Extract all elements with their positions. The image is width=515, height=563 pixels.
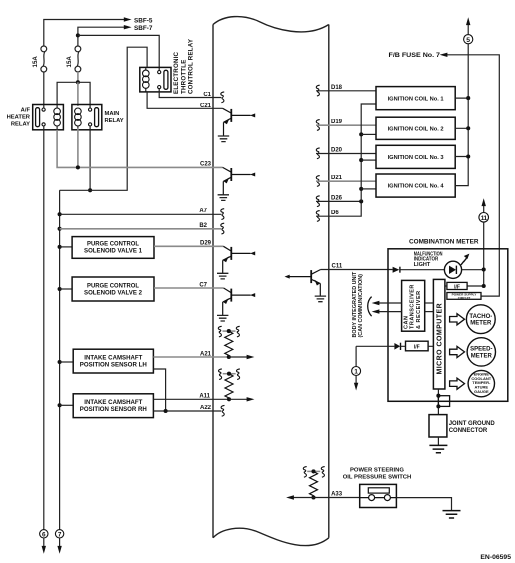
svg-text:METER: METER xyxy=(470,321,492,327)
pin circle top xyxy=(42,108,45,111)
wire fuse1 up to SBF-5 xyxy=(44,20,125,47)
hollow arrow to temp gauge xyxy=(450,378,465,389)
svg-text:HEATER: HEATER xyxy=(7,115,31,121)
LED malfunction indicator light xyxy=(444,261,461,278)
svg-text:OIL PRESSURE SWITCH: OIL PRESSURE SWITCH xyxy=(343,475,412,481)
svg-text:IGNITION COIL No. 4: IGNITION COIL No. 4 xyxy=(388,184,445,190)
resistor R1 at A21 xyxy=(218,326,239,359)
contact bar xyxy=(36,108,40,127)
relay K3 ETC relay box xyxy=(140,67,171,92)
wire fuse2 up to SBF-7 xyxy=(78,27,125,46)
intake camshaft position sensor LH box xyxy=(73,349,153,373)
node rail purge1 junction xyxy=(58,245,62,249)
svg-text:D6: D6 xyxy=(331,210,339,216)
svg-text:C23: C23 xyxy=(200,162,212,168)
svg-text:COMBINATION METER: COMBINATION METER xyxy=(409,238,479,245)
node IF rail junction xyxy=(482,284,486,288)
coil xyxy=(75,108,82,115)
arrow to SBF-7 xyxy=(124,25,132,29)
svg-text:C11: C11 xyxy=(332,264,343,270)
wire coil power rail xyxy=(455,44,468,186)
wire purge1 to D29 xyxy=(154,245,223,247)
ground at Q3 xyxy=(217,273,228,279)
wire node 11 down to MIL line xyxy=(467,222,484,286)
svg-text:IGNITION COIL No. 2: IGNITION COIL No. 2 xyxy=(388,126,445,132)
svg-text:GAUGE: GAUGE xyxy=(474,389,489,394)
wire down to connector 1 xyxy=(355,346,357,366)
wire D26 to coil common xyxy=(316,200,361,202)
wire main relay contact down to distribution line xyxy=(89,126,91,190)
node rail coil1 xyxy=(466,96,470,100)
power supply circuit box xyxy=(447,293,481,300)
LED light arrow xyxy=(464,258,467,262)
wire left rail down to connector 7 xyxy=(59,190,61,529)
transistor Q4 at C7 xyxy=(223,288,251,315)
wire diode to LED xyxy=(400,269,444,271)
wire lower I/F to micro xyxy=(401,345,434,347)
node D26 junction xyxy=(359,199,363,203)
svg-text:PURGE CONTROL: PURGE CONTROL xyxy=(87,284,139,290)
node C23 coil junction xyxy=(76,165,80,169)
contact bar xyxy=(164,70,168,89)
pin circle bottom xyxy=(42,123,45,126)
svg-text:15A: 15A xyxy=(66,56,73,68)
pin B2 hook xyxy=(221,223,224,234)
svg-text:B2: B2 xyxy=(199,223,207,229)
wire A33 with left arrow xyxy=(293,497,360,499)
relay K2 main relay box xyxy=(72,105,102,130)
svg-text:D26: D26 xyxy=(331,195,343,201)
svg-text:1: 1 xyxy=(354,369,358,376)
wire ignition coil common vertical xyxy=(361,104,376,201)
hollow arrow to tachometer xyxy=(450,314,465,325)
svg-text:JOINT GROUND: JOINT GROUND xyxy=(449,421,496,427)
hollow arrow to speedometer xyxy=(450,346,465,357)
transistor Q5 at C11 xyxy=(289,270,321,297)
pin circle top xyxy=(158,71,161,74)
pin D19 hook xyxy=(316,120,319,131)
connector node 7 xyxy=(55,530,63,538)
wire common to coil3 xyxy=(361,159,376,161)
wire sensor RH to A11 xyxy=(153,398,229,400)
node rail purge2 junction xyxy=(58,287,62,291)
micro computer box xyxy=(433,279,445,389)
wire switch to ground xyxy=(396,498,451,511)
intake camshaft position sensor RH box xyxy=(73,394,153,418)
svg-text:11: 11 xyxy=(481,215,488,222)
svg-text:A11: A11 xyxy=(199,393,210,399)
I/F box lower xyxy=(406,341,429,351)
ECM right edge xyxy=(328,25,330,538)
joint ground connector box xyxy=(429,415,447,437)
wire sensor RH feed xyxy=(60,404,74,406)
node rail A7 junction xyxy=(58,212,62,216)
diode D1 on MIL line xyxy=(393,267,400,273)
wire CAN to micro upper xyxy=(425,302,434,304)
svg-text:I/F: I/F xyxy=(454,284,460,290)
svg-text:TRANSCEIVER: TRANSCEIVER xyxy=(410,284,416,329)
svg-text:D20: D20 xyxy=(331,148,343,154)
wire D21 to coil 4 xyxy=(316,180,376,182)
meter connector rect xyxy=(438,396,449,407)
svg-text:CONNECTOR: CONNECTOR xyxy=(449,428,488,434)
ignition coil No.4 box xyxy=(376,174,455,197)
wire purge2 to C7 xyxy=(154,287,224,289)
node rail B2 junction xyxy=(58,227,62,231)
node rail sensor RH junction xyxy=(58,403,62,407)
svg-text:PURGE CONTROL: PURGE CONTROL xyxy=(87,242,139,248)
ignition coil No.1 box xyxy=(376,87,455,110)
ground at Q2 xyxy=(218,195,229,201)
wire micro to upper I/F xyxy=(445,285,447,287)
svg-text:CIRCUIT: CIRCUIT xyxy=(458,296,471,300)
svg-text:C1: C1 xyxy=(203,92,211,98)
wire sensor LH feed xyxy=(60,361,74,363)
transistor Q2 at C23 xyxy=(223,167,251,194)
pin D21 hook xyxy=(316,176,319,187)
switch pin circle left xyxy=(369,495,375,501)
svg-text:IGNITION COIL No. 3: IGNITION COIL No. 3 xyxy=(388,155,445,161)
coil xyxy=(145,67,147,92)
ground at Q1 xyxy=(218,136,229,142)
svg-text:5: 5 xyxy=(466,37,470,44)
wire D6 right then up to D26 junction xyxy=(316,201,361,216)
node fuse2 lower junction dot xyxy=(76,80,80,84)
svg-text:SBF-5: SBF-5 xyxy=(134,17,153,24)
coil xyxy=(56,105,58,130)
arrow to F/B fuse xyxy=(440,53,448,57)
ECM left edge xyxy=(212,25,214,538)
svg-text:SOLENOID VALVE 2: SOLENOID VALVE 2 xyxy=(84,291,143,297)
wire SBF-7 branch to ETC relay pin xyxy=(78,35,159,70)
connector node 5 xyxy=(464,35,473,44)
switch box xyxy=(360,484,397,507)
wire common to coil4 xyxy=(361,188,376,190)
svg-text:IGNITION COIL No. 1: IGNITION COIL No. 1 xyxy=(388,96,445,102)
wire A21 arrow xyxy=(229,356,248,358)
transistor Q3 at D29 xyxy=(223,246,251,273)
svg-text:METER: METER xyxy=(471,353,493,359)
CAN bus arc xyxy=(368,297,372,317)
svg-text:I/F: I/F xyxy=(414,345,420,351)
pin A7 hook xyxy=(221,209,224,220)
svg-text:A22: A22 xyxy=(200,405,212,411)
wire purge1 feed xyxy=(60,246,73,248)
purge control solenoid valve 2 box xyxy=(72,277,154,301)
I/F box upper xyxy=(447,282,467,289)
svg-text:MAIN: MAIN xyxy=(105,111,120,117)
svg-text:TACHO-: TACHO- xyxy=(469,314,492,320)
CAN transceiver & receiver box xyxy=(402,280,425,331)
purge control solenoid valve 1 box xyxy=(72,237,154,259)
svg-text:A/F: A/F xyxy=(21,108,31,114)
svg-text:RELAY: RELAY xyxy=(11,122,30,128)
speedometer circle xyxy=(467,338,495,366)
svg-text:ELECTRONIC: ELECTRONIC xyxy=(173,51,180,94)
svg-text:6: 6 xyxy=(42,531,46,538)
node rail coil3 xyxy=(466,154,470,158)
wire C11 to meter xyxy=(321,269,393,271)
node common coil3 xyxy=(359,158,363,162)
relay K1 A/F heater relay box xyxy=(33,105,64,130)
node rail coil2 xyxy=(466,126,470,130)
svg-text:D18: D18 xyxy=(331,85,343,91)
wire fuse1 down to A/F relay pin xyxy=(43,72,45,108)
transistor Q1 at C21 xyxy=(223,108,251,136)
svg-text:C21: C21 xyxy=(200,103,212,109)
wire CAN to micro lower xyxy=(425,311,434,313)
wire distribution line to left rail and to ETC coil xyxy=(60,47,148,190)
pin A22 hook xyxy=(221,405,224,416)
fuse F1 15A xyxy=(41,46,47,72)
svg-text:D19: D19 xyxy=(331,119,343,125)
wire JGC to ground xyxy=(437,437,439,445)
pin D18 hook xyxy=(316,85,319,96)
wire CAN bus out upper xyxy=(378,302,402,304)
wire CAN bus out lower xyxy=(378,311,402,313)
wire sensor LH to A21 xyxy=(153,356,228,358)
node A22 junction dot xyxy=(164,409,168,413)
wire ETC coil bottom to C21 xyxy=(147,92,223,108)
ignition coil No.3 box xyxy=(376,145,455,168)
combination meter box xyxy=(388,249,508,401)
wire lower I/F line xyxy=(356,345,394,347)
svg-text:INTAKE CAMSHAFT: INTAKE CAMSHAFT xyxy=(84,400,142,406)
connector node 11 xyxy=(479,213,489,223)
node common coil2 xyxy=(359,132,363,136)
svg-text:(CAN COMMUNICATION): (CAN COMMUNICATION) xyxy=(358,274,364,338)
wire A/F coil bottom + main coil bottom to C23 xyxy=(57,128,223,167)
wire purge2 feed xyxy=(60,288,73,290)
ECM bottom wavy edge xyxy=(213,528,329,545)
svg-text:POWER STEERING: POWER STEERING xyxy=(350,468,404,474)
ignition coil No.2 box xyxy=(376,117,455,139)
wire sensor LH second pin down to A22 line xyxy=(153,369,165,411)
svg-text:CONTROL RELAY: CONTROL RELAY xyxy=(188,38,195,94)
ground at Q4 xyxy=(217,315,228,321)
svg-text:THROTTLE: THROTTLE xyxy=(180,59,187,94)
svg-text:POSITION SENSOR LH: POSITION SENSOR LH xyxy=(80,362,147,368)
svg-text:CAN: CAN xyxy=(404,316,410,329)
ECM top wavy edge xyxy=(213,17,329,32)
node below connector rect xyxy=(436,404,440,408)
svg-text:INTAKE CAMSHAFT: INTAKE CAMSHAFT xyxy=(84,355,142,361)
svg-text:SPEED-: SPEED- xyxy=(470,347,492,353)
svg-text:7: 7 xyxy=(58,531,62,538)
node MIL rail junction xyxy=(482,267,486,271)
ground at switch xyxy=(443,511,461,518)
wire inside switch xyxy=(360,497,397,499)
wire A11 arrow xyxy=(229,398,248,400)
connector node 1 xyxy=(352,367,361,376)
svg-text:A21: A21 xyxy=(200,351,212,357)
resistor R2 at A11 xyxy=(218,369,239,401)
wire D20 to coil 3 xyxy=(316,153,376,155)
svg-text:D21: D21 xyxy=(331,175,343,181)
svg-text:D29: D29 xyxy=(200,240,212,246)
svg-text:A7: A7 xyxy=(199,208,207,214)
pin C1 hook xyxy=(221,92,224,103)
pin circle bottom xyxy=(158,86,161,89)
pin D6 hook xyxy=(316,211,319,222)
svg-text:C7: C7 xyxy=(199,282,207,288)
wire A/F relay pin bottom down to connector 6 xyxy=(43,126,45,530)
wire A7 xyxy=(60,213,221,215)
tachometer circle xyxy=(466,305,495,334)
node above connector rect xyxy=(436,394,440,398)
svg-text:MICRO COMPUTER: MICRO COMPUTER xyxy=(437,303,444,375)
svg-text:SOLENOID VALVE 1: SOLENOID VALVE 1 xyxy=(84,249,143,255)
pin D26 hook xyxy=(316,196,319,207)
connector node 6 xyxy=(40,530,48,538)
wire ETC contact bottom to C1 xyxy=(159,89,221,98)
node common coil4 xyxy=(359,187,363,191)
node SBF-7 junction dot xyxy=(76,33,80,37)
svg-text:F/B FUSE No. 7: F/B FUSE No. 7 xyxy=(389,52,441,59)
wire common to coil2 xyxy=(361,133,376,135)
pin circle top xyxy=(89,108,92,111)
wire D19 to coil 2 xyxy=(316,124,376,126)
wire sensor RH second pin to A22 xyxy=(153,410,221,412)
svg-text:RELAY: RELAY xyxy=(105,118,124,124)
svg-text:EN-06595: EN-06595 xyxy=(480,554,511,561)
svg-text:& RECEIVER: & RECEIVER xyxy=(416,290,422,329)
svg-text:15A: 15A xyxy=(32,56,39,68)
svg-text:POSITION SENSOR RH: POSITION SENSOR RH xyxy=(80,407,147,413)
contact bar xyxy=(95,108,99,127)
wire F/B fuse line xyxy=(447,55,500,296)
svg-text:LIGHT: LIGHT xyxy=(414,262,431,268)
wire B2 xyxy=(60,228,221,230)
wire micro bottom down xyxy=(437,389,439,415)
wire feed bar to A/F coil and main relay pin xyxy=(57,82,90,108)
arrow to SBF-5 xyxy=(124,17,132,21)
switch contact bar xyxy=(368,488,389,493)
diode D2 on I/F line xyxy=(394,343,400,350)
pin circle bottom xyxy=(89,123,92,126)
ground at Q5 xyxy=(315,296,326,302)
svg-text:SBF-7: SBF-7 xyxy=(134,25,153,32)
wire fuse2 down to junction xyxy=(77,72,79,82)
engine coolant temperature gauge circle xyxy=(468,370,494,396)
fuse F2 15A xyxy=(75,46,81,72)
node rail sensor LH junction xyxy=(58,360,62,364)
pin D20 hook xyxy=(316,148,319,159)
wire main relay coil top xyxy=(77,82,79,106)
svg-text:A33: A33 xyxy=(331,492,343,498)
resistor R3 at A33 xyxy=(303,467,324,500)
switch pin circle right xyxy=(384,495,390,501)
ground at JGC xyxy=(429,445,447,452)
node main relay output junction xyxy=(88,188,92,192)
wire LED to rail xyxy=(462,269,484,271)
wire D18 to coil 1 xyxy=(316,90,376,92)
